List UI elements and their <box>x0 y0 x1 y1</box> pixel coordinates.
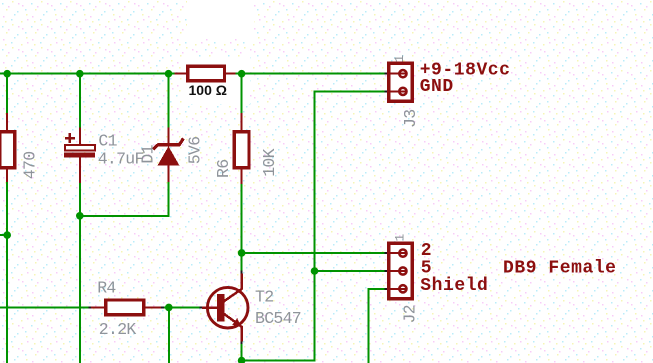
node junction collector row <box>238 249 246 257</box>
svg-text:4.7uF: 4.7uF <box>98 150 144 169</box>
connector J2 pin 2 line <box>389 270 406 272</box>
wire base junction down <box>168 307 170 363</box>
transistor T2 base bar <box>217 294 225 322</box>
svg-text:R6: R6 <box>214 160 233 178</box>
capacitor C1 top pin <box>79 128 81 146</box>
svg-text:100 Ω: 100 Ω <box>189 82 227 98</box>
svg-text:C1: C1 <box>98 132 117 151</box>
capacitor C1 top plate <box>65 145 95 150</box>
connector J3 box <box>389 63 413 101</box>
white patch around 100 ohm resistor <box>182 57 250 104</box>
transistor T2 emitter lead <box>224 314 242 342</box>
node junction rail x168 <box>165 70 173 78</box>
svg-text:5V6: 5V6 <box>186 137 205 165</box>
wire GND junction to J2 pin2 <box>315 270 385 272</box>
wire D1 column upper <box>168 74 170 128</box>
transistor T2 collector lead <box>224 274 242 302</box>
capacitor C1 bottom pin <box>79 157 81 183</box>
wire top rail right segment <box>236 73 385 75</box>
wire D1 bottom to C1 column <box>80 182 169 216</box>
wire top rail left segment <box>0 73 175 75</box>
wire stub left edge y235 <box>0 234 7 236</box>
resistor 100 ohm right lead <box>225 73 236 75</box>
svg-text:10K: 10K <box>260 148 279 176</box>
wire base row left <box>0 306 88 308</box>
resistor R4 right lead <box>144 306 162 308</box>
svg-text:BC547: BC547 <box>255 309 301 328</box>
resistor R? 470 bottom pin <box>6 168 8 182</box>
node junction rail x80 <box>76 70 84 78</box>
node junction rail x7 <box>3 70 11 78</box>
node junction base row <box>165 304 173 312</box>
svg-text:D1: D1 <box>138 144 157 163</box>
wire C1 column upper <box>79 74 81 128</box>
connector J2 box <box>389 243 413 299</box>
transistor T2 emitter arrow <box>232 318 241 327</box>
wire left column upper <box>6 74 8 113</box>
svg-text:2.2K: 2.2K <box>99 320 137 339</box>
svg-text:J3: J3 <box>401 110 420 128</box>
capacitor C1 bottom plate <box>64 153 95 158</box>
connector J2 pin 1 circle <box>399 250 406 257</box>
node junction left column y235 <box>3 231 11 239</box>
svg-text:DB9 Female: DB9 Female <box>503 259 617 279</box>
pin end tick J2 pin2 <box>385 270 389 272</box>
connector J3 pin 2 line <box>389 90 406 92</box>
svg-text:Shield: Shield <box>420 276 488 296</box>
connector J2 pin 1 line <box>389 252 406 254</box>
svg-text:470: 470 <box>20 152 39 180</box>
wire GND from J3 pin2 <box>242 91 385 360</box>
zener diode D1 anode triangle <box>158 146 180 165</box>
connector J3 pin 2 circle <box>399 88 406 95</box>
resistor R4 body <box>106 300 144 315</box>
wire R6 bottom to collector <box>241 184 243 271</box>
pin end tick base <box>200 306 203 308</box>
connector J3 pin 1 line <box>389 73 406 75</box>
resistor 100 ohm body <box>188 66 225 81</box>
white patch top center <box>187 0 254 39</box>
wire emitter lower <box>241 344 243 363</box>
node junction rail x241 <box>238 70 246 78</box>
resistor R? 470 top pin <box>6 113 8 132</box>
svg-text:GND: GND <box>420 77 454 97</box>
diode D1 bottom pin <box>168 165 170 182</box>
pin end tick J2 pin3 <box>385 288 389 290</box>
wire R6 column upper <box>241 74 243 113</box>
pin end tick R4 right <box>161 306 164 308</box>
svg-text:J2: J2 <box>401 305 420 323</box>
connector J3 pin 1 circle <box>399 70 406 77</box>
svg-text:1: 1 <box>392 234 407 242</box>
pin end tick J3 pin2 <box>385 90 389 92</box>
wire shield to J2 pin3 <box>368 289 384 363</box>
wire R4 to base junction <box>164 306 200 308</box>
connector J2 pin 3 line <box>389 288 406 290</box>
connector J2 pin 2 circle <box>399 267 406 274</box>
wire collector row to J2 pin1 <box>242 252 385 254</box>
capacitor C1 plus sign <box>65 133 75 143</box>
resistor R4 left lead <box>91 306 106 308</box>
transistor T2 circle <box>207 287 248 328</box>
pin end tick emitter <box>241 342 243 345</box>
resistor 100 ohm left lead <box>175 73 189 75</box>
zener diode D1 cathode bar <box>153 138 183 149</box>
svg-text:1: 1 <box>392 55 407 63</box>
resistor R6 body <box>234 132 249 168</box>
node junction emitter bottom <box>238 357 246 363</box>
resistor R6 top pin <box>241 113 243 132</box>
node junction C1 column y216 <box>76 212 84 220</box>
pin end tick collector <box>241 271 243 274</box>
node junction GND column y271 <box>311 267 319 275</box>
wire C1 column lower <box>79 183 81 363</box>
svg-text:R4: R4 <box>97 279 116 298</box>
connector J2 pin 3 circle <box>399 285 406 292</box>
svg-text:T2: T2 <box>255 288 273 307</box>
resistor R? 470 body <box>0 132 15 168</box>
pin end tick J3 pin1 <box>385 73 389 75</box>
transistor T2 base pin <box>202 306 217 309</box>
resistor R6 bottom pin <box>241 168 243 184</box>
pin end tick J2 pin1 <box>385 252 389 254</box>
diode D1 top pin <box>168 128 170 147</box>
pin end tick R4 left <box>88 306 91 308</box>
wire left column lower <box>6 182 8 363</box>
